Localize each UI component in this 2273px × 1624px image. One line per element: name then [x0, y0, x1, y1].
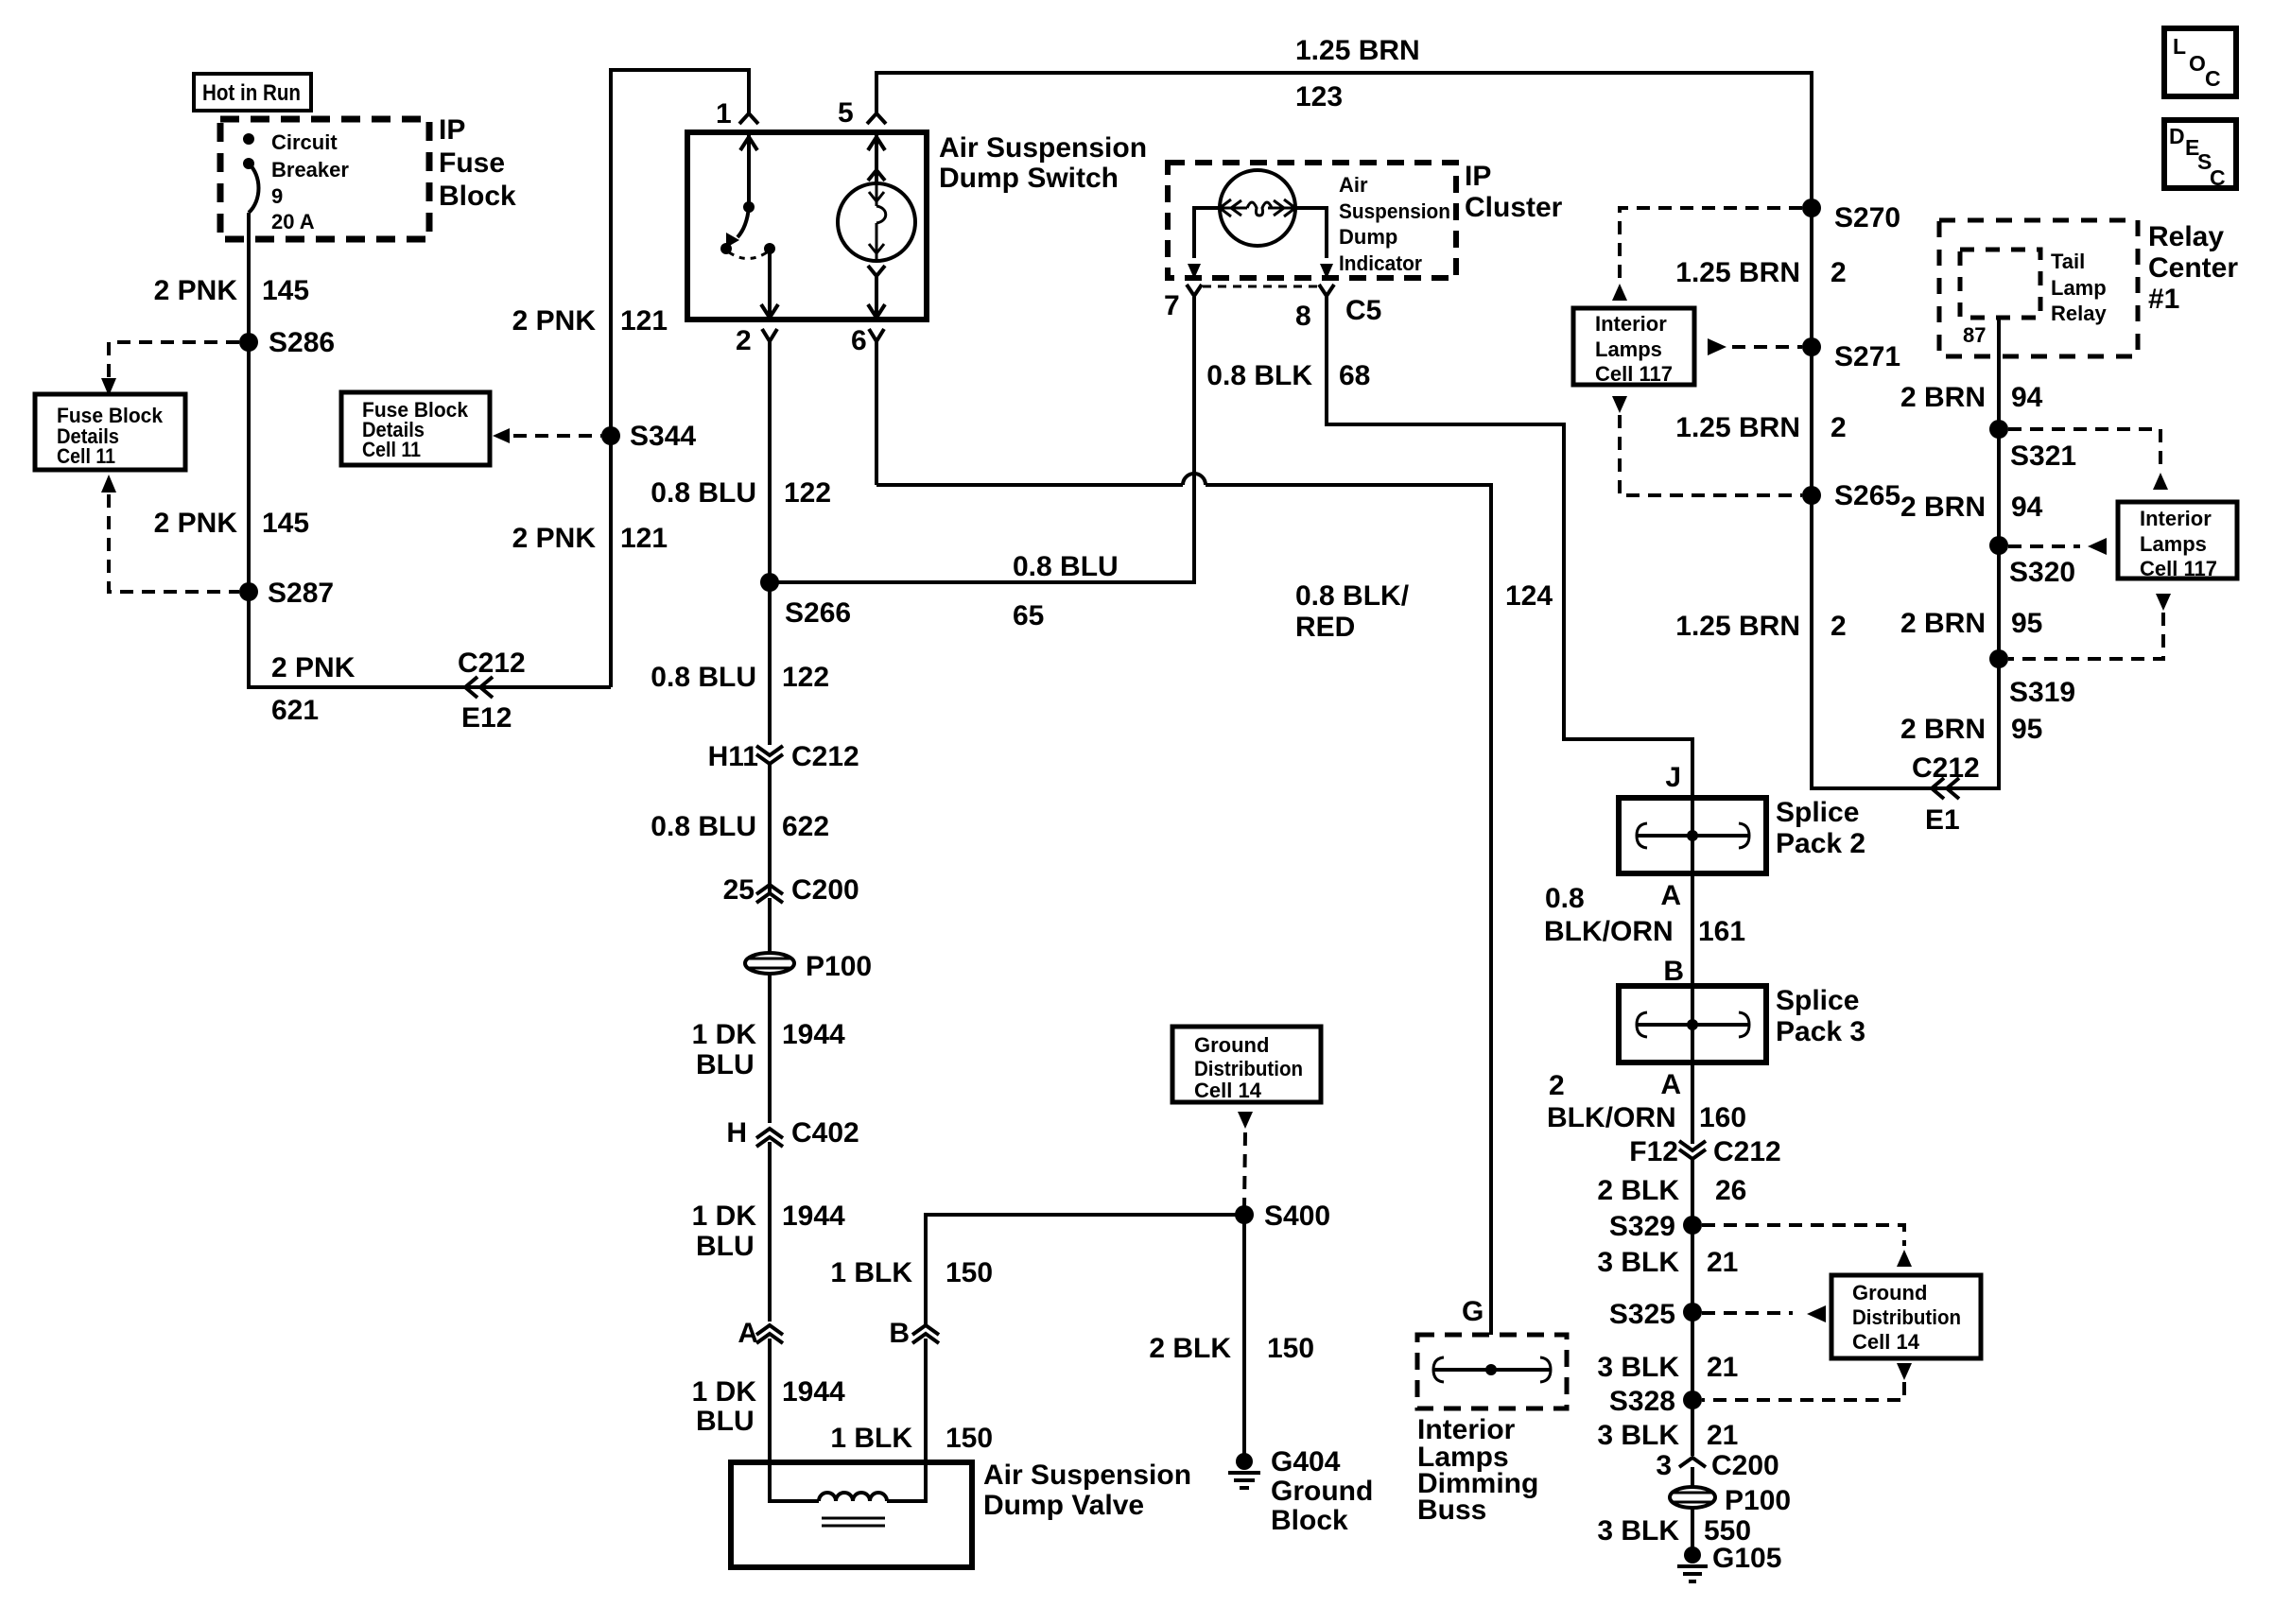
- wire: 2 BLK 150 S400 to G404: [1242, 1215, 1246, 1454]
- label: 1.25 BRN 123: [1295, 35, 1420, 112]
- svg-text:2: 2: [736, 325, 752, 356]
- label: 3 BLK 21 (second): [1597, 1352, 1738, 1383]
- svg-text:21: 21: [1707, 1352, 1738, 1383]
- pin 1 connector of dump switch: [716, 98, 758, 130]
- relay: Tail Lamp Relay dashed box: [1960, 250, 2107, 325]
- svg-text:P100: P100: [806, 951, 872, 982]
- node S321: [1989, 420, 2076, 472]
- connector H C402 inline chevrons: [726, 1117, 859, 1149]
- svg-text:9: 9: [271, 184, 283, 208]
- svg-text:C402: C402: [791, 1117, 859, 1149]
- svg-text:S321: S321: [2010, 441, 2076, 472]
- svg-text:1.25 BRN: 1.25 BRN: [1675, 611, 1800, 642]
- svg-text:2 PNK: 2 PNK: [154, 275, 238, 306]
- svg-text:Circuit: Circuit: [271, 130, 338, 154]
- svg-text:S320: S320: [2009, 557, 2075, 588]
- label: 0.8 BLU 122 (lower): [651, 662, 829, 693]
- svg-text:A: A: [1660, 880, 1681, 911]
- circuit breaker 9 20 A: [243, 130, 349, 239]
- svg-text:3: 3: [1656, 1450, 1672, 1481]
- wire: 0.8 BLU 122 S266 down to C212: [768, 582, 772, 745]
- svg-text:IP: IP: [1465, 161, 1491, 192]
- ground G404 Ground Block: [1228, 1446, 1373, 1536]
- svg-text:S265: S265: [1834, 480, 1900, 511]
- svg-text:S270: S270: [1834, 202, 1900, 233]
- svg-text:S271: S271: [1834, 341, 1900, 372]
- box: LOC tab: [2164, 28, 2236, 96]
- svg-text:122: 122: [784, 477, 831, 509]
- grommet P100: [745, 951, 872, 982]
- svg-text:2 BLK: 2 BLK: [1149, 1333, 1231, 1364]
- svg-text:Cell 14: Cell 14: [1194, 1079, 1262, 1102]
- svg-text:3 BLK: 3 BLK: [1597, 1420, 1679, 1451]
- label: IP Fuse Block: [439, 114, 516, 212]
- svg-text:C212: C212: [458, 648, 526, 679]
- svg-text:G404: G404: [1271, 1446, 1341, 1477]
- svg-text:RED: RED: [1295, 612, 1355, 643]
- svg-text:A: A: [1660, 1069, 1681, 1100]
- connector 3 C200 inline chevron: [1656, 1450, 1778, 1481]
- node S271: [1802, 337, 1900, 372]
- svg-text:1944: 1944: [782, 1376, 845, 1408]
- svg-text:0.8: 0.8: [1545, 883, 1585, 914]
- svg-text:Block: Block: [439, 181, 516, 212]
- node S319: [1989, 649, 2075, 708]
- connector F12 C212 inline chevrons: [1629, 1136, 1780, 1167]
- wire: 3 BLK 550: [1691, 1508, 1694, 1547]
- label: Air Suspension Dump Valve: [983, 1460, 1191, 1521]
- svg-text:BLU: BLU: [696, 1049, 755, 1080]
- svg-text:S344: S344: [630, 421, 696, 452]
- node S265: [1802, 480, 1900, 511]
- svg-text:2: 2: [1549, 1070, 1565, 1101]
- node S328: [1609, 1386, 1702, 1417]
- svg-text:Fuse: Fuse: [439, 147, 505, 179]
- svg-text:150: 150: [1267, 1333, 1314, 1364]
- svg-text:2: 2: [1831, 257, 1847, 288]
- svg-text:2 BLK: 2 BLK: [1597, 1175, 1679, 1206]
- svg-text:BLU: BLU: [696, 1406, 755, 1437]
- node S400: [1235, 1201, 1330, 1232]
- svg-text:161: 161: [1698, 916, 1745, 947]
- label: 2 BLK/ORN 160: [1547, 1070, 1746, 1133]
- wire: 0.8 BLU 122 pin 2 to S266: [768, 341, 772, 582]
- dashed ref: Interior Lamps (right) to S319: [2008, 594, 2171, 659]
- svg-text:3 BLK: 3 BLK: [1597, 1352, 1679, 1383]
- svg-text:L: L: [2173, 34, 2186, 59]
- svg-text:H: H: [726, 1117, 747, 1149]
- label: 2 PNK 121 (upper): [512, 305, 668, 337]
- switch pole contact from pin 1: [740, 133, 757, 213]
- svg-text:Air: Air: [1339, 173, 1368, 197]
- svg-text:2 BRN: 2 BRN: [1900, 492, 1986, 523]
- svg-text:95: 95: [2011, 608, 2042, 639]
- svg-text:B: B: [1663, 956, 1684, 987]
- node S287: [239, 578, 334, 609]
- label: Air Suspension Dump Indicator: [1339, 173, 1450, 275]
- svg-text:95: 95: [2011, 714, 2042, 745]
- svg-text:0.8 BLU: 0.8 BLU: [651, 662, 756, 693]
- connector A of dump valve: [737, 1318, 783, 1349]
- label: 2 PNK 121 (lower): [512, 523, 668, 554]
- svg-text:3 BLK: 3 BLK: [1597, 1247, 1679, 1278]
- svg-text:21: 21: [1707, 1420, 1738, 1451]
- label: Interior Lamps Dimming Buss: [1417, 1414, 1538, 1526]
- wire: 0.8 BLU 65 from S266 to IP cluster pin 7: [770, 297, 1194, 582]
- box: Fuse Block Details Cell 11 (second): [341, 392, 490, 465]
- svg-text:Interior: Interior: [1595, 312, 1667, 336]
- svg-text:3 BLK: 3 BLK: [1597, 1515, 1679, 1546]
- wire: 2 PNK 621 S287 down and right to C212: [249, 592, 611, 687]
- svg-text:Dump: Dump: [1339, 225, 1397, 249]
- wire: 3 BLK 21 (below S328): [1691, 1400, 1694, 1456]
- svg-text:1.25 BRN: 1.25 BRN: [1295, 35, 1420, 66]
- svg-text:5: 5: [838, 97, 854, 129]
- svg-text:87: 87: [1963, 323, 1986, 347]
- svg-text:121: 121: [620, 305, 668, 337]
- svg-text:Cell 11: Cell 11: [362, 438, 421, 461]
- svg-text:C212: C212: [791, 741, 859, 772]
- indicator lamp left lead to pin 7: [1188, 208, 1222, 279]
- label: 2 PNK 621: [271, 652, 356, 726]
- svg-text:Cell 117: Cell 117: [1595, 362, 1673, 386]
- svg-text:1 BLK: 1 BLK: [830, 1257, 912, 1288]
- svg-text:S319: S319: [2009, 677, 2075, 708]
- connector C5 face dashed line: [1203, 285, 1318, 288]
- box: Fuse Block Details Cell 11 (left): [35, 394, 185, 470]
- switch illumination lamp feed from pin 5: [868, 133, 885, 183]
- svg-text:Indicator: Indicator: [1339, 251, 1422, 275]
- pin 8 connector of IP cluster: [1295, 285, 1381, 332]
- svg-text:Lamps: Lamps: [2140, 532, 2207, 556]
- svg-text:621: 621: [271, 695, 319, 726]
- svg-text:2 PNK: 2 PNK: [512, 523, 597, 554]
- svg-text:145: 145: [262, 275, 309, 306]
- indicator lamp right lead to pin 8: [1293, 208, 1333, 279]
- label: 2 BLK 26: [1597, 1175, 1746, 1206]
- connector C212 E12 inline chevrons: [458, 648, 526, 734]
- svg-text:BLK/ORN: BLK/ORN: [1544, 916, 1674, 947]
- svg-text:160: 160: [1699, 1102, 1746, 1133]
- svg-text:S266: S266: [785, 597, 851, 629]
- svg-text:8: 8: [1295, 301, 1311, 332]
- svg-text:6: 6: [851, 325, 867, 356]
- splice pack 2: [1619, 798, 1766, 873]
- node S266: [760, 573, 851, 629]
- svg-text:D: D: [2169, 124, 2185, 148]
- svg-text:BLU: BLU: [696, 1231, 755, 1262]
- connector C212 E1 inline chevrons: [1912, 752, 1980, 836]
- svg-text:#1: #1: [2148, 284, 2179, 315]
- svg-text:H11: H11: [708, 741, 758, 772]
- svg-text:123: 123: [1295, 81, 1343, 112]
- svg-text:Relay: Relay: [2051, 302, 2107, 325]
- label: 1 BLK 150 (lower): [830, 1423, 993, 1454]
- svg-text:J: J: [1665, 762, 1681, 793]
- svg-text:21: 21: [1707, 1247, 1738, 1278]
- label: 0.8 BLU 622: [651, 811, 829, 842]
- switch lamp ground side to pin 6: [868, 266, 885, 318]
- label: 1.25 BRN 2 (third): [1675, 611, 1846, 642]
- dashed ref: Ground Distribution to S400: [1238, 1112, 1253, 1208]
- wire: 0.8 BLK/RED 124 from pin 6 with hop over pin 7 wire: [876, 341, 1491, 1370]
- grommet P100 (second): [1670, 1485, 1791, 1516]
- dashed ref: S320 to Interior Lamps (right): [2008, 538, 2107, 555]
- svg-text:Dump Switch: Dump Switch: [939, 163, 1119, 194]
- svg-text:Center: Center: [2148, 252, 2238, 284]
- label: IP Cluster: [1465, 161, 1563, 223]
- svg-text:Cluster: Cluster: [1465, 192, 1563, 223]
- switch throw contact to pin 2: [761, 243, 778, 318]
- svg-text:C200: C200: [791, 874, 859, 906]
- svg-text:Hot in Run: Hot in Run: [202, 80, 301, 106]
- wire: 0.8 BLK/ORN 161: [1691, 873, 1694, 986]
- label: 2 BRN 94 (upper): [1900, 382, 2043, 413]
- wire: pin 5 riser to 1.25 BRN trunk: [876, 73, 1999, 788]
- wire: 1 DK BLU 1944 C402 to connector A: [768, 1142, 772, 1322]
- dashed ref: S325 to Ground Distribution (lower): [1702, 1305, 1826, 1322]
- pin 5 connector of dump switch: [838, 97, 886, 129]
- pin 7 connector of IP cluster: [1164, 285, 1202, 321]
- label: 2 BRN 94 (lower): [1900, 492, 2043, 523]
- svg-text:2 PNK: 2 PNK: [512, 305, 597, 337]
- svg-text:2 PNK: 2 PNK: [154, 508, 238, 539]
- svg-text:Relay: Relay: [2148, 221, 2224, 252]
- svg-text:Breaker: Breaker: [271, 158, 349, 181]
- node S320: [1989, 536, 2075, 588]
- svg-text:121: 121: [620, 523, 668, 554]
- svg-text:Lamp: Lamp: [2051, 276, 2107, 300]
- svg-text:Block: Block: [1271, 1505, 1348, 1536]
- IP Cluster dashed enclosure: [1168, 163, 1456, 278]
- label: 2 PNK 145: [154, 275, 309, 306]
- label: 3 BLK 21 (third): [1597, 1420, 1738, 1451]
- svg-text:E1: E1: [1925, 804, 1960, 836]
- svg-text:2: 2: [1831, 611, 1847, 642]
- wire: to P100 (second): [1691, 1467, 1694, 1486]
- box: Interior Lamps Cell 117 (right): [2118, 502, 2237, 580]
- svg-text:Splice: Splice: [1776, 797, 1859, 828]
- label: Relay Center #1: [2148, 221, 2238, 315]
- svg-text:2 BRN: 2 BRN: [1900, 714, 1986, 745]
- svg-text:IP: IP: [439, 114, 465, 146]
- splice: Interior Lamps Dimming Buss: [1417, 1335, 1567, 1408]
- svg-text:124: 124: [1505, 580, 1553, 612]
- svg-text:C: C: [2210, 165, 2226, 190]
- svg-text:2 BRN: 2 BRN: [1900, 608, 1986, 639]
- svg-text:20 A: 20 A: [271, 210, 315, 233]
- svg-text:0.8 BLK/: 0.8 BLK/: [1295, 580, 1410, 612]
- node S325: [1609, 1299, 1702, 1330]
- svg-text:C: C: [2205, 66, 2221, 91]
- dashed ref: Fuse Block Details back to S287: [101, 475, 239, 592]
- svg-text:65: 65: [1013, 600, 1044, 631]
- dashed ref: S329 to Ground Distribution Cell 14 (lower): [1702, 1225, 1912, 1267]
- svg-text:2: 2: [1831, 412, 1847, 443]
- svg-text:Splice: Splice: [1776, 985, 1859, 1016]
- pin 2 connector of dump switch: [736, 325, 777, 356]
- svg-text:O: O: [2189, 51, 2206, 76]
- svg-text:Cell 14: Cell 14: [1852, 1330, 1920, 1354]
- wire: 3 BLK 21 (S329-S325): [1691, 1225, 1694, 1312]
- label: 2 BRN 95 (upper): [1900, 608, 2042, 639]
- svg-text:145: 145: [262, 508, 309, 539]
- svg-text:Ground: Ground: [1194, 1033, 1269, 1057]
- svg-text:S329: S329: [1609, 1211, 1675, 1242]
- Relay Center 1 dashed enclosure: [1939, 220, 2138, 356]
- svg-text:E12: E12: [461, 702, 512, 734]
- box: Ground Distribution Cell 14 (upper): [1172, 1027, 1321, 1102]
- node S329: [1609, 1211, 1702, 1242]
- box: Ground Distribution Cell 14 (lower): [1831, 1275, 1981, 1358]
- svg-text:C5: C5: [1345, 295, 1381, 326]
- svg-text:622: 622: [782, 811, 829, 842]
- label: Splice Pack 3: [1776, 985, 1865, 1047]
- svg-text:C212: C212: [1912, 752, 1980, 784]
- svg-text:S325: S325: [1609, 1299, 1675, 1330]
- svg-text:Cell 117: Cell 117: [2140, 557, 2217, 580]
- dashed ref: S286 to Fuse Block Details: [101, 342, 239, 396]
- wire: 0.8 BLK 68 from pin 8 to splice pack 2: [1327, 296, 1692, 798]
- box: Hot in Run header: [194, 74, 311, 111]
- wire: 1 BLK 150 valve to B connector: [924, 1339, 928, 1462]
- svg-text:A: A: [737, 1318, 758, 1349]
- svg-text:Ground: Ground: [1271, 1476, 1373, 1507]
- label: Splice Pack 2: [1776, 797, 1865, 859]
- valve solenoid coil: [770, 1462, 926, 1526]
- svg-text:Air Suspension: Air Suspension: [939, 132, 1147, 164]
- svg-text:Tail: Tail: [2051, 250, 2085, 273]
- svg-text:Interior: Interior: [2140, 507, 2212, 530]
- wire: 1 DK BLU 1944 P100 to C402: [768, 973, 772, 1123]
- label: 3 BLK 550: [1597, 1515, 1751, 1546]
- switch illumination lamp bulb: [838, 183, 915, 261]
- svg-text:S287: S287: [268, 578, 334, 609]
- svg-text:150: 150: [946, 1423, 993, 1454]
- svg-text:F12: F12: [1629, 1136, 1678, 1167]
- pin 6 connector of dump switch: [851, 325, 884, 356]
- svg-text:Air Suspension: Air Suspension: [983, 1460, 1191, 1491]
- svg-text:BLK/ORN: BLK/ORN: [1547, 1102, 1676, 1133]
- node S286: [239, 327, 335, 358]
- label: 1.25 BRN 2 (first): [1675, 257, 1846, 288]
- label: 1 DK BLU 1944 (lower): [692, 1376, 845, 1437]
- node S270: [1802, 199, 1900, 233]
- svg-text:68: 68: [1339, 360, 1370, 391]
- box: DESC tab: [2164, 120, 2236, 190]
- label: 0.8 BLU 122 (upper): [651, 477, 831, 509]
- svg-text:C200: C200: [1711, 1450, 1779, 1481]
- svg-text:S286: S286: [269, 327, 335, 358]
- label: 2 PNK 145 (second): [154, 508, 309, 539]
- box: Interior Lamps Cell 117 (left): [1573, 308, 1694, 386]
- svg-text:1 DK: 1 DK: [692, 1376, 757, 1408]
- label: 1 BLK 150 (upper): [830, 1257, 993, 1288]
- svg-text:Buss: Buss: [1417, 1494, 1486, 1526]
- label: 2 BRN 95 (lower): [1900, 714, 2042, 745]
- wire: 2 PNK 145 breaker to S286: [247, 239, 251, 342]
- svg-text:122: 122: [782, 662, 829, 693]
- svg-text:Pack 2: Pack 2: [1776, 828, 1865, 859]
- svg-text:Ground: Ground: [1852, 1281, 1927, 1304]
- connector B of dump valve: [889, 1318, 939, 1349]
- dashed ref: S344 to Fuse Block Details (arrow): [493, 428, 601, 443]
- wire: 2 BLK/ORN 160: [1691, 1063, 1694, 1144]
- svg-text:Suspension: Suspension: [1339, 199, 1450, 223]
- svg-text:25: 25: [723, 874, 755, 906]
- svg-text:1.25 BRN: 1.25 BRN: [1675, 257, 1800, 288]
- wire: 0.8 BLU 622: [768, 764, 772, 894]
- svg-text:1944: 1944: [782, 1201, 845, 1232]
- svg-text:Lamps: Lamps: [1595, 337, 1662, 361]
- wire: 2 BLK 26: [1691, 1159, 1694, 1225]
- dashed ref: S321 to Interior Lamps Cell 117 (right): [2008, 429, 2168, 490]
- svg-text:S400: S400: [1264, 1201, 1330, 1232]
- svg-text:1 BLK: 1 BLK: [830, 1423, 912, 1454]
- label: 0.8 BLK 68: [1206, 360, 1370, 391]
- splice pack 3: [1619, 986, 1766, 1063]
- svg-text:G: G: [1462, 1296, 1484, 1327]
- svg-text:Distribution: Distribution: [1852, 1305, 1961, 1329]
- svg-text:7: 7: [1164, 290, 1180, 321]
- label: Air Suspension Dump Switch: [939, 132, 1147, 194]
- label: 0.8 BLK/RED 124: [1295, 580, 1553, 643]
- svg-text:1: 1: [716, 98, 732, 130]
- connector H11 C212 inline chevrons: [708, 741, 859, 772]
- label: 0.8 BLU 65: [1013, 551, 1119, 631]
- svg-text:Distribution: Distribution: [1194, 1057, 1303, 1080]
- wire: to P100: [768, 898, 772, 954]
- indicator lamp bulb: [1220, 170, 1295, 246]
- dashed ref: S270 to Interior Lamps Cell 117 (left): [1612, 208, 1802, 301]
- wire: 1 BLK 150 B connector up to S400: [926, 1215, 1244, 1325]
- svg-text:26: 26: [1715, 1175, 1746, 1206]
- node S344: [601, 421, 696, 452]
- svg-text:2 BRN: 2 BRN: [1900, 382, 1986, 413]
- svg-text:1 DK: 1 DK: [692, 1201, 757, 1232]
- wire: 2 PNK 121 vertical up to top: [611, 70, 749, 687]
- svg-text:Pack 3: Pack 3: [1776, 1016, 1865, 1047]
- svg-text:0.8 BLK: 0.8 BLK: [1206, 360, 1312, 391]
- svg-text:1 DK: 1 DK: [692, 1019, 757, 1050]
- switch blade with arrow: [720, 207, 749, 254]
- svg-text:Dump Valve: Dump Valve: [983, 1490, 1144, 1521]
- svg-text:0.8 BLU: 0.8 BLU: [651, 477, 756, 509]
- svg-text:P100: P100: [1725, 1485, 1791, 1516]
- label: 1 DK BLU 1944 (middle): [692, 1201, 845, 1262]
- svg-text:S328: S328: [1609, 1386, 1675, 1417]
- IP Fuse Block dashed enclosure: [220, 119, 429, 239]
- dashed ref: Interior Lamps (left) to S271: [1708, 338, 1802, 355]
- switch alternate position dashed arc: [729, 252, 767, 259]
- label: 1 DK BLU 1944 (upper): [692, 1019, 845, 1080]
- ground G105: [1677, 1543, 1781, 1581]
- wire: 2 PNK 145 S286 to S287: [247, 342, 251, 592]
- svg-text:G105: G105: [1712, 1543, 1781, 1574]
- svg-text:94: 94: [2011, 382, 2043, 413]
- svg-text:1944: 1944: [782, 1019, 845, 1050]
- connector 25 C200 inline chevrons: [723, 874, 859, 906]
- svg-text:B: B: [889, 1318, 910, 1349]
- svg-text:94: 94: [2011, 492, 2043, 523]
- label: 3 BLK 21 (first): [1597, 1247, 1738, 1278]
- dashed ref: Ground Distribution (lower) to S328: [1702, 1363, 1912, 1400]
- dashed ref: S265 to Interior Lamps Cell 117 (left, bottom): [1612, 396, 1802, 495]
- label: 2 BLK 150: [1149, 1333, 1314, 1364]
- svg-text:C212: C212: [1713, 1136, 1781, 1167]
- svg-text:0.8 BLU: 0.8 BLU: [651, 811, 756, 842]
- svg-text:Cell 11: Cell 11: [57, 444, 115, 468]
